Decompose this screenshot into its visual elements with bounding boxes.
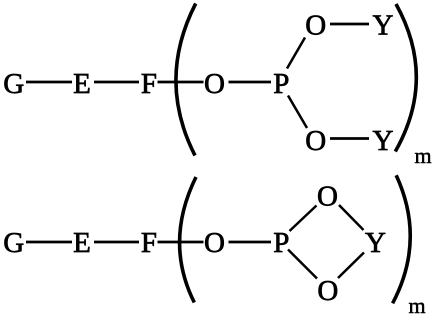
- svg-text:m: m: [414, 143, 431, 168]
- svg-text:F: F: [141, 68, 157, 100]
- wire bond P-O upper diagonal (formula 2): [290, 206, 317, 232]
- wire bond G-E (formula 2): [26, 241, 72, 244]
- open parenthesis (formula 1): [176, 4, 196, 156]
- svg-text:O: O: [204, 227, 225, 259]
- wire bond P-O lower diagonal (formula 2): [288, 250, 317, 279]
- svg-text:E: E: [73, 68, 91, 100]
- wire bond O-Y lower (formula 1): [330, 137, 369, 140]
- wire bond O-Y upper (formula 1): [330, 23, 369, 26]
- wire bond O-P (formula 2): [229, 241, 272, 244]
- wire bond O-P (formula 1): [229, 81, 272, 84]
- svg-text:Y: Y: [373, 125, 394, 157]
- open parenthesis (formula 2): [180, 177, 196, 303]
- svg-text:E: E: [73, 227, 91, 259]
- svg-text:F: F: [141, 227, 157, 259]
- wire bond E-F (formula 1): [94, 81, 139, 84]
- wire bond F-O (formula 1): [158, 81, 204, 84]
- svg-text:O: O: [305, 9, 326, 41]
- close parenthesis (formula 1): [395, 4, 416, 152]
- svg-text:Y: Y: [373, 9, 394, 41]
- svg-text:Y: Y: [365, 227, 386, 259]
- wire bond P-O lower diagonal (formula 1): [288, 96, 307, 129]
- wire bond G-E (formula 1): [26, 81, 72, 84]
- svg-text:O: O: [305, 125, 326, 157]
- svg-text:G: G: [3, 227, 24, 259]
- wire bond P-O upper diagonal (formula 1): [287, 38, 305, 69]
- svg-text:P: P: [273, 68, 289, 100]
- svg-text:G: G: [3, 68, 24, 100]
- svg-text:O: O: [317, 181, 338, 213]
- svg-text:O: O: [317, 275, 338, 307]
- close parenthesis (formula 2): [393, 175, 411, 303]
- svg-text:P: P: [273, 227, 289, 259]
- wire bond F-O (formula 2): [158, 241, 204, 244]
- wire bond O-Y upper diagonal (formula 2): [339, 205, 364, 230]
- wire bond E-F (formula 2): [94, 241, 139, 244]
- svg-text:m: m: [408, 293, 425, 316]
- wire bond Y-O lower diagonal (formula 2): [338, 253, 364, 279]
- svg-text:O: O: [204, 68, 225, 100]
